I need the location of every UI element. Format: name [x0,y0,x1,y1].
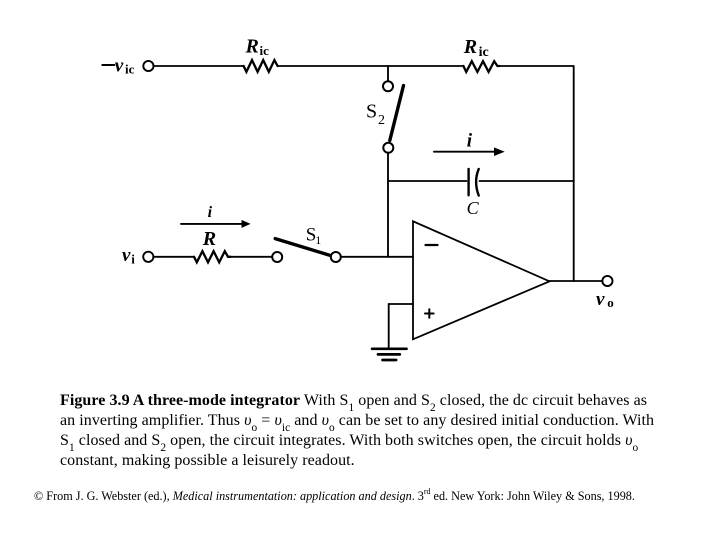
current arrow i (input) [181,220,251,228]
resistor R [194,251,231,262]
wire op-amp output to terminal vo [550,280,603,282]
wire R to S1 left contact [231,256,273,258]
resistor Ric (left) [244,60,278,72]
wire Ric2 to top-right corner [500,65,574,67]
copyright footer [34,489,635,504]
label S1 [306,225,322,247]
label -vic [102,55,134,76]
wire Ric1 to node A [278,65,388,67]
switch S2 [383,81,404,153]
svg-text:i: i [467,131,473,152]
svg-text:2: 2 [378,113,385,128]
svg-text:v: v [596,289,605,310]
wire S1 to op-amp inverting input [341,256,413,258]
wire S2 bottom to node B [387,153,389,257]
current arrow i (feedback) [434,147,505,156]
svg-text:ic: ic [479,45,489,60]
label S2 [366,100,385,128]
svg-text:i: i [208,204,213,221]
op-amp noninverting pin marker (+) [425,309,434,318]
wire node A to Ric2 [388,65,463,67]
svg-text:v: v [122,245,131,266]
wire -vic to Ric1 [153,65,243,67]
wire vi to R [153,256,194,258]
op-amp U1 [413,221,550,339]
terminal vi [143,252,153,262]
svg-text:ic: ic [260,43,270,58]
wire node A to switch S2 [387,66,389,81]
svg-text:v: v [115,55,124,76]
svg-text:o: o [607,295,614,310]
label Ric (right) [463,36,489,60]
label Ric (left) [245,36,270,59]
svg-text:C: C [467,198,480,218]
wire noninverting input [389,304,413,348]
capacitor C [469,169,479,196]
op-amp inverting pin marker (-) [426,244,438,246]
wire node B to capacitor C [388,180,467,182]
svg-text:S: S [366,100,377,122]
terminal -vic [143,61,153,71]
label vo [596,289,614,310]
svg-text:ic: ic [125,61,135,76]
ground [372,349,406,360]
label vi [122,245,135,266]
svg-text:i: i [131,252,135,267]
switch S1 [272,239,341,262]
resistor Ric (right) [463,61,499,72]
wire right vertical (top rail to output) [573,66,575,281]
svg-text:R: R [202,228,216,250]
terminal vo [602,276,612,286]
svg-text:R: R [245,36,259,58]
figure caption [60,391,700,471]
svg-text:1: 1 [315,233,321,247]
svg-text:R: R [463,36,477,58]
wire capacitor C to right vertical [480,180,574,182]
